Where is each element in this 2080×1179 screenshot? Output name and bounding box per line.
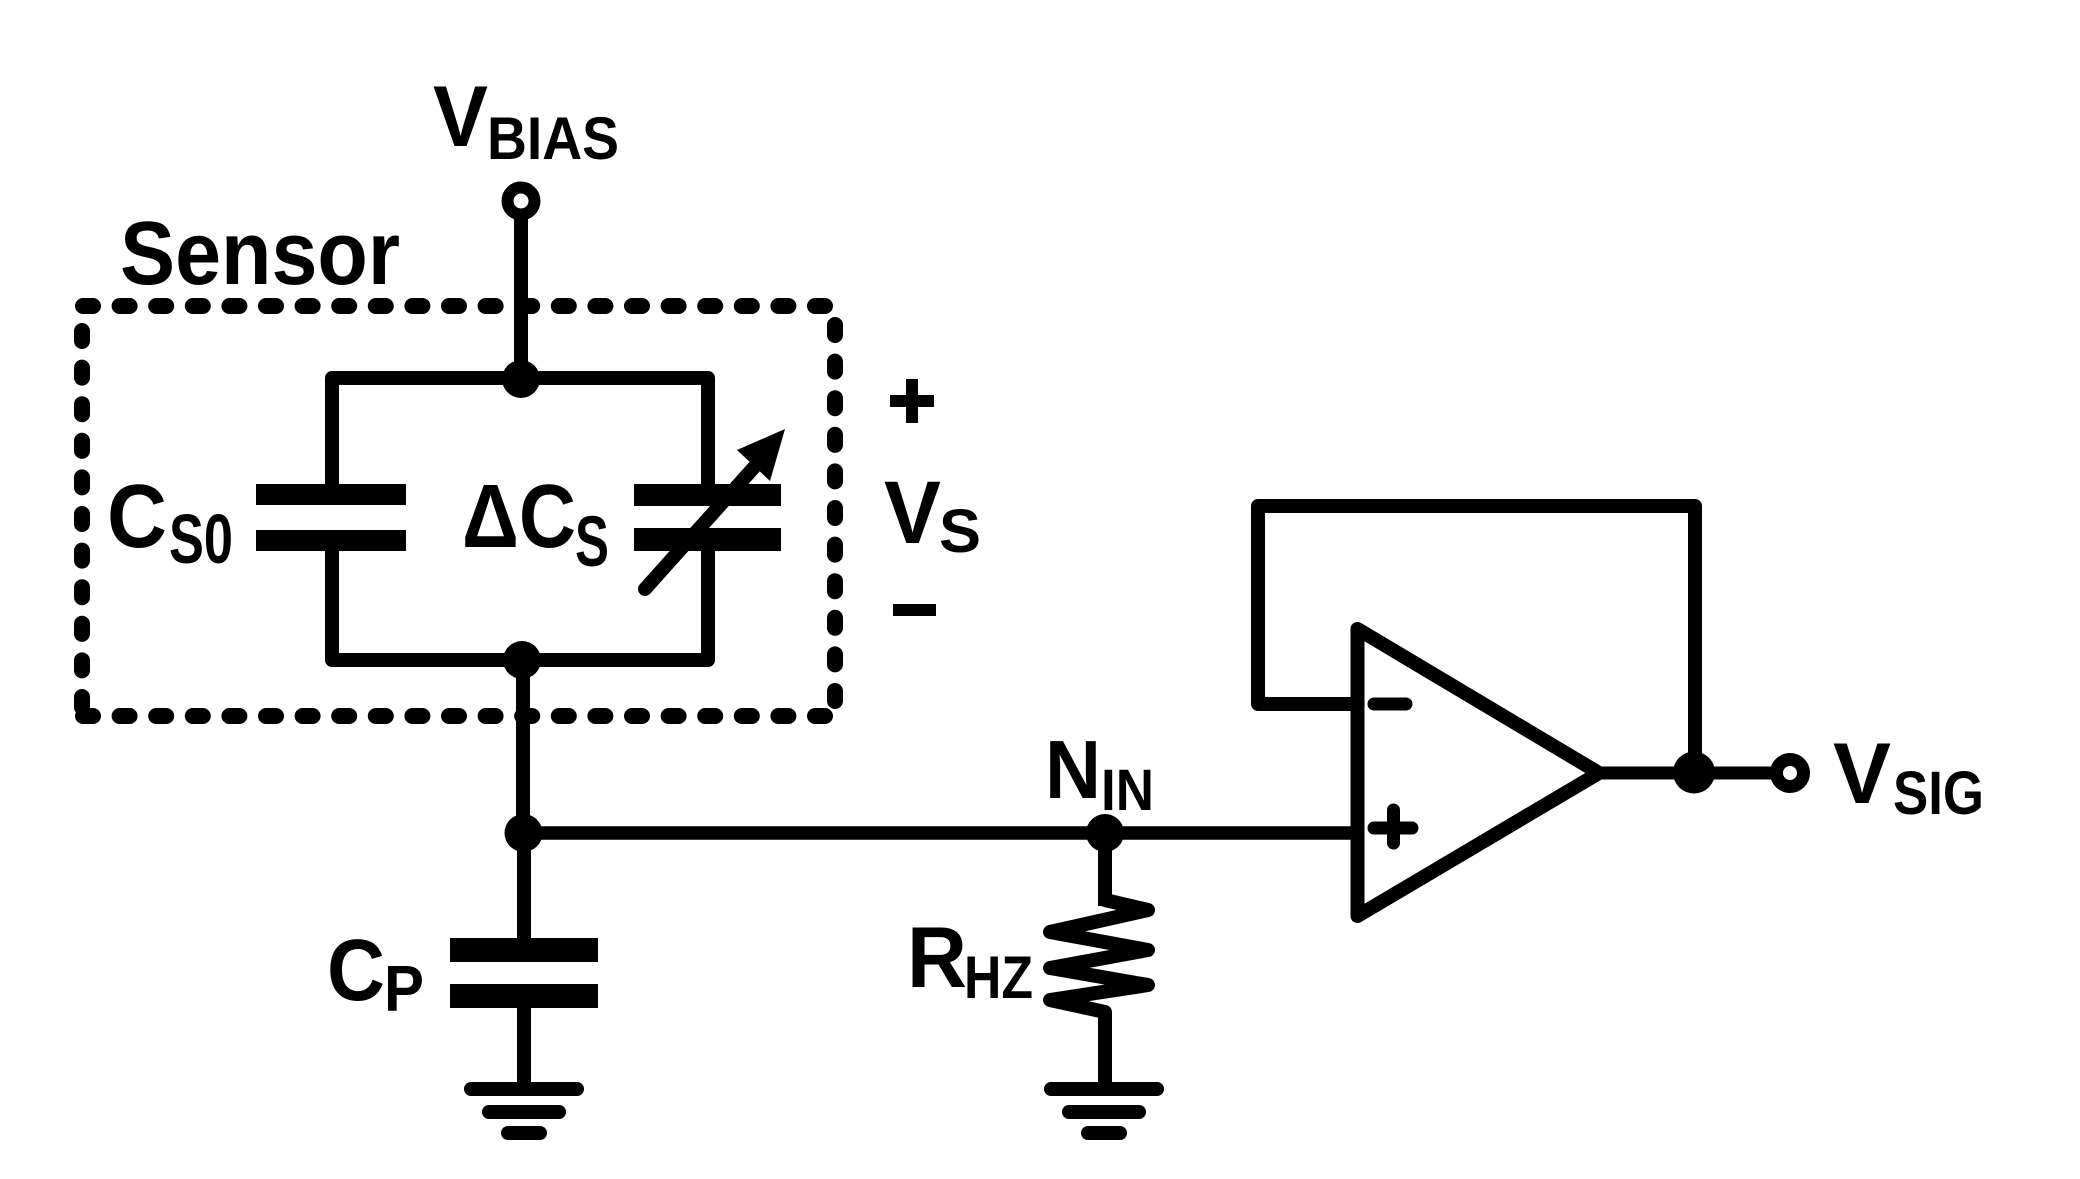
svg-text:S: S [939,497,981,565]
svg-text:Sensor: Sensor [120,204,400,304]
svg-text:SIG: SIG [1893,759,1984,827]
svg-text:BIAS: BIAS [487,105,619,172]
svg-text:V: V [433,69,488,165]
svg-text:ΔC: ΔC [462,467,576,567]
svg-text:S0: S0 [169,500,233,578]
svg-text:S: S [575,503,609,582]
svg-text:C: C [327,922,385,1019]
svg-text:IN: IN [1101,758,1154,823]
svg-text:C: C [107,467,167,567]
svg-text:P: P [384,952,424,1025]
svg-text:N: N [1045,723,1101,816]
svg-text:V: V [1833,726,1891,822]
svg-text:HZ: HZ [964,944,1033,1011]
svg-text:R: R [907,910,967,1006]
svg-text:V: V [884,462,941,562]
